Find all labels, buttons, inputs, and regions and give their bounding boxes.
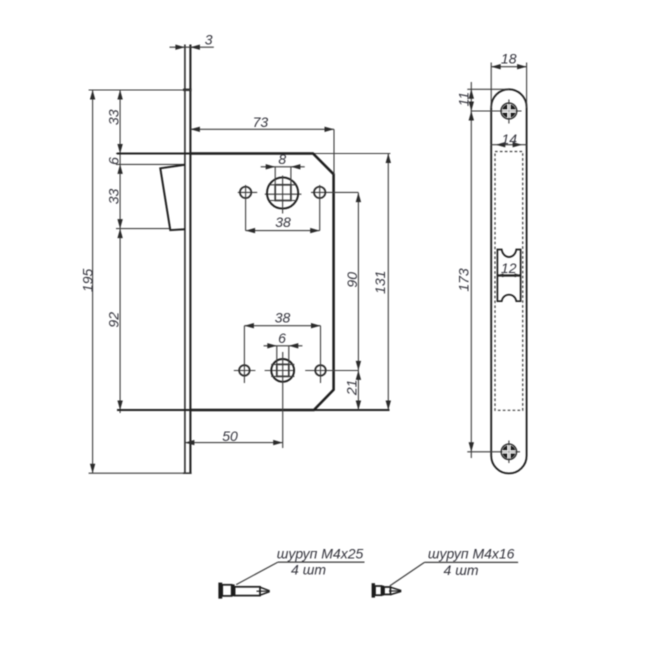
- svg-text:шуруп М4х25: шуруп М4х25: [277, 545, 364, 561]
- lock body outline: [190, 154, 333, 411]
- svg-text:173: 173: [456, 268, 472, 292]
- chain dimension line 33-6-33-92: [119, 90, 121, 413]
- svg-text:33: 33: [106, 189, 122, 205]
- svg-text:38: 38: [275, 310, 291, 326]
- screw M4x16 collar: [382, 586, 385, 596]
- svg-text:11: 11: [455, 92, 471, 107]
- bottom hole group centerline horizontal: [234, 370, 256, 372]
- svg-text:18: 18: [501, 50, 517, 66]
- svg-text:4 шт: 4 шт: [291, 561, 326, 577]
- bottom right small hole: [315, 365, 326, 376]
- svg-text:4 шт: 4 шт: [444, 562, 479, 578]
- faceplate top cap: [183, 89, 192, 91]
- svg-text:6: 6: [278, 330, 286, 346]
- screw M4x16 tip: [390, 587, 400, 594]
- strike plate edge extensions up: [490, 63, 492, 109]
- bottom spindle square: [277, 364, 289, 376]
- faceplate bottom cap: [183, 472, 192, 474]
- screw M4x16 shank: [384, 587, 390, 594]
- svg-text:50: 50: [222, 428, 238, 444]
- top square edge extensions horizontal: [269, 184, 296, 186]
- bottom spindle vertical centerline and 50 extension: [282, 352, 284, 448]
- strike plate outline: [491, 89, 526, 473]
- latch cutout: [497, 250, 520, 302]
- svg-text:6: 6: [105, 157, 121, 165]
- screw M4x25 head: [222, 585, 232, 596]
- dimension 8 line: [261, 166, 305, 168]
- dimension 131 line: [387, 154, 389, 411]
- top left small hole vertical line: [245, 185, 247, 231]
- screw M4x25 label shelf: [278, 561, 365, 563]
- svg-text:90: 90: [344, 272, 360, 288]
- top spindle square: [275, 185, 291, 201]
- top screw head dark: [502, 104, 516, 118]
- screw M4x25 leader line: [236, 562, 278, 585]
- dimension 18 line: [491, 66, 526, 68]
- extension line plate top apex: [467, 88, 509, 90]
- top hole group centerline horizontal: [238, 191, 257, 193]
- svg-text:шуруп М4х16: шуруп М4х16: [428, 545, 515, 561]
- top square edge extensions vertical: [274, 167, 276, 201]
- top spindle circle: [267, 177, 298, 208]
- dimension 11-173 line: [470, 82, 472, 458]
- top right small hole: [314, 187, 325, 198]
- bottom screw hole vertical centerline: [508, 441, 510, 464]
- bottom spindle circle: [271, 359, 294, 382]
- faceplate right edge line: [189, 45, 191, 474]
- extension line faceplate bottom: [89, 472, 192, 474]
- dimension 3 line: [170, 46, 214, 48]
- svg-text:38: 38: [275, 214, 291, 230]
- svg-text:195: 195: [79, 269, 95, 293]
- bottom screw head dark: [502, 445, 515, 458]
- dimension 195 line: [92, 90, 94, 473]
- svg-text:33: 33: [106, 109, 122, 125]
- dimension 38 bottom line: [244, 325, 320, 327]
- svg-text:92: 92: [106, 312, 122, 328]
- top screw hole outer circle: [501, 103, 517, 119]
- dimension 73 line: [190, 128, 334, 130]
- top left small hole: [240, 187, 251, 198]
- dimension 38 top line: [246, 230, 320, 232]
- dimension 14 line: [491, 144, 527, 146]
- svg-text:73: 73: [253, 114, 269, 130]
- faceplate left edge line: [184, 45, 186, 474]
- bottom right small hole vertical line: [320, 326, 322, 383]
- dimension 12 line: [497, 274, 520, 276]
- svg-text:12: 12: [501, 260, 517, 276]
- dashed pocket rectangle: [495, 152, 523, 411]
- dimension 50 line: [185, 442, 283, 444]
- dimension 73 extension right: [333, 129, 335, 174]
- dimension 6 line bottom square: [264, 345, 303, 347]
- screw M4x16 head: [375, 586, 382, 595]
- dimension 90-21 line: [357, 193, 359, 410]
- svg-text:14: 14: [502, 131, 518, 147]
- svg-text:21: 21: [343, 380, 359, 397]
- bottom left small hole vertical line: [243, 326, 245, 383]
- bottom screw hole outer circle: [501, 444, 516, 459]
- svg-text:3: 3: [205, 32, 213, 48]
- latch bolt: [160, 165, 185, 230]
- screw M4x16 flange: [372, 583, 375, 597]
- extension line lock bottom: [117, 409, 390, 411]
- screw M4x25 shank: [235, 587, 260, 596]
- screw M4x25 flange: [218, 583, 222, 599]
- bottom square edge extensions vertical: [276, 346, 278, 377]
- screw M4x16 leader line: [390, 562, 425, 586]
- bottom screw hole centerline horizontal / 173 extension: [467, 451, 520, 453]
- svg-text:8: 8: [278, 151, 286, 167]
- extension line lock top: [116, 153, 390, 155]
- top screw hole centerline horizontal: [471, 110, 522, 112]
- bottom screw phillips cross: [503, 445, 516, 458]
- screw M4x16 label shelf: [424, 561, 518, 563]
- screw M4x25 collar: [232, 584, 235, 596]
- extension line latch bottom: [116, 228, 170, 230]
- top screw hole vertical centerline: [508, 100, 510, 124]
- bottom square edge extensions horizontal: [271, 363, 294, 365]
- svg-text:131: 131: [372, 271, 388, 294]
- screw M4x25 tip midline: [257, 590, 269, 592]
- screw M4x16 tip midline: [389, 590, 400, 592]
- extension line latch top: [116, 163, 185, 165]
- top spindle vertical centerline: [282, 176, 284, 214]
- bottom left small hole: [239, 365, 250, 376]
- screw M4x25 tip: [260, 587, 269, 595]
- top screw phillips cross: [502, 105, 515, 118]
- extension line faceplate top: [89, 89, 192, 91]
- top right small hole vertical line: [319, 185, 321, 231]
